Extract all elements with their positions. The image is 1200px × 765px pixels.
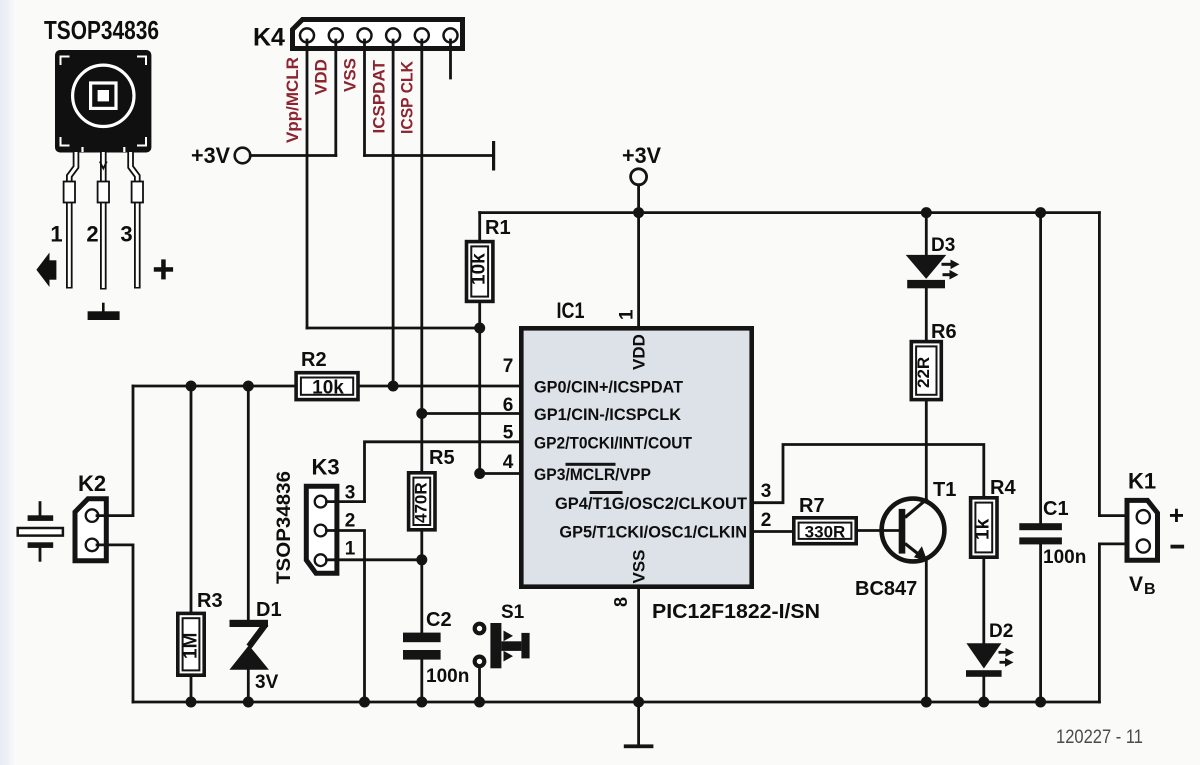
junction K3 pin2 / rail xyxy=(359,697,370,708)
wire +3V to VDD column xyxy=(250,154,335,157)
K2 pin 1 circle xyxy=(86,509,99,522)
svg-text:R2: R2 xyxy=(301,349,327,371)
wire top rail down to C1 xyxy=(1039,213,1042,523)
svg-text:120227 - 11: 120227 - 11 xyxy=(1056,727,1143,748)
svg-text:B: B xyxy=(1144,581,1156,598)
resistor R2 10k (horizontal) xyxy=(296,373,358,400)
svg-text:GP1/CIN-/ICSPCLK: GP1/CIN-/ICSPCLK xyxy=(534,405,682,424)
GP2 net wire xyxy=(365,442,520,502)
svg-text:1: 1 xyxy=(345,539,356,560)
wire R3 bottom to rail xyxy=(190,676,193,703)
junction R3 / rail xyxy=(186,697,197,708)
jog wire from K4 pin1 to R1 bottom xyxy=(307,327,480,330)
junction S1 / rail xyxy=(474,697,485,708)
wire D2 bottom to rail xyxy=(982,677,985,702)
svg-text:PIC12F1822-I/SN: PIC12F1822-I/SN xyxy=(652,601,820,623)
zener diode D1 xyxy=(229,620,269,670)
junction C1 / rail xyxy=(1035,697,1046,708)
junction T1 emitter / rail xyxy=(921,697,932,708)
wire K4 pin1 down xyxy=(306,40,309,328)
GP0 net wire xyxy=(133,385,519,388)
svg-text:VSS: VSS xyxy=(341,58,360,92)
svg-text:10k: 10k xyxy=(312,378,344,399)
svg-text:R6: R6 xyxy=(931,321,957,343)
wire C1 bottom to rail xyxy=(1039,544,1042,702)
svg-text:R1: R1 xyxy=(485,217,511,239)
svg-text:1: 1 xyxy=(50,222,62,247)
svg-text:IC1: IC1 xyxy=(557,298,585,323)
svg-text:5: 5 xyxy=(503,423,514,444)
wire T1 collector up to R6 xyxy=(925,402,928,499)
package lens circle xyxy=(73,65,134,126)
junction ICSPDAT / GP0 xyxy=(388,381,399,392)
connector K2 body xyxy=(75,499,106,561)
svg-text:6: 6 xyxy=(503,395,514,416)
svg-text:GP5/T1CKI/OSC1/CLKIN: GP5/T1CKI/OSC1/CLKIN xyxy=(559,523,747,542)
wire C2 bottom to rail xyxy=(420,660,423,702)
svg-text:D2: D2 xyxy=(989,621,1013,642)
svg-text:VDD: VDD xyxy=(630,334,649,370)
svg-text:T1: T1 xyxy=(933,479,956,501)
svg-text:VDD: VDD xyxy=(312,59,331,95)
junction R1 bottom / MCLR jog xyxy=(474,323,485,334)
battery cell symbol xyxy=(18,503,63,561)
svg-text:1k: 1k xyxy=(973,518,994,540)
junction ICSPCLK / GP1 xyxy=(416,408,427,419)
svg-text:2: 2 xyxy=(345,511,356,532)
wire K2 pin1 to left riser xyxy=(97,386,133,516)
package center square window xyxy=(91,83,116,108)
package corner highlight marks xyxy=(61,57,147,146)
GP1 net wire xyxy=(422,412,519,415)
ground rail (bottom) xyxy=(133,701,1099,704)
wire top rail to K1 + xyxy=(1099,213,1126,516)
resistor R7 330R (horizontal) xyxy=(794,518,856,544)
wire K4 pin2 down to +3V line xyxy=(334,40,337,156)
svg-text:8: 8 xyxy=(611,597,631,607)
svg-text:Vpp/MCLR: Vpp/MCLR xyxy=(283,57,302,143)
junction D1 / rail xyxy=(243,697,254,708)
wire K2 pin2 down to ground rail xyxy=(97,545,133,702)
svg-text:BC847: BC847 xyxy=(855,578,917,600)
svg-text:7: 7 xyxy=(503,356,514,377)
svg-text:ICSPDAT: ICSPDAT xyxy=(370,60,389,134)
svg-text:VSS: VSS xyxy=(630,549,649,583)
wire IC1 VSS pin down xyxy=(637,589,640,702)
svg-text:470R: 470R xyxy=(412,482,431,523)
LED D3 xyxy=(906,255,960,288)
TSOP pin2 ground stub and bar xyxy=(102,303,105,312)
svg-text:K2: K2 xyxy=(78,471,106,496)
junction R3 / GP0 xyxy=(186,381,197,392)
svg-text:100n: 100n xyxy=(426,666,469,687)
svg-text:GP0/CIN+/ICSPDAT: GP0/CIN+/ICSPDAT xyxy=(534,378,684,397)
LED D2 xyxy=(966,643,1014,677)
K1 minus sign xyxy=(1171,545,1185,549)
TSOP pin 2 leg xyxy=(98,152,109,290)
svg-text:R7: R7 xyxy=(799,495,825,517)
TSOP pin 3 leg xyxy=(131,152,143,289)
svg-text:1M: 1M xyxy=(181,633,202,659)
junction D2 / rail xyxy=(978,697,989,708)
K4 pin 5 circle xyxy=(415,28,429,42)
junction C1 / top rail xyxy=(1035,207,1046,218)
wire K3 pin1 to R5 column xyxy=(327,558,422,561)
capacitor C2 plates xyxy=(403,633,441,643)
bar terminator xyxy=(492,141,495,171)
connector K4 body xyxy=(293,20,463,49)
junction VSS / rail xyxy=(633,697,644,708)
junction C2 / rail xyxy=(416,697,427,708)
svg-text:K4: K4 xyxy=(253,24,285,52)
svg-text:2: 2 xyxy=(86,222,98,247)
package bottom notches xyxy=(83,147,125,152)
svg-text:+: + xyxy=(1169,500,1184,530)
wire K4 pin3 down xyxy=(363,40,366,156)
svg-text:C2: C2 xyxy=(426,609,452,631)
svg-text:ICSP CLK: ICSP CLK xyxy=(398,60,417,134)
wire top rail to D3 xyxy=(925,213,928,255)
resistor R1 10k (vertical) xyxy=(467,213,493,474)
connector K1 body xyxy=(1127,500,1158,560)
svg-text:100n: 100n xyxy=(1043,547,1086,568)
overline T1G xyxy=(590,491,623,494)
wire R5 bottom to C2 xyxy=(420,532,423,633)
TSOP plus sign xyxy=(154,267,173,272)
K4 pin 3 circle xyxy=(358,28,372,42)
svg-text:GP4/T1G/OSC2/CLKOUT: GP4/T1G/OSC2/CLKOUT xyxy=(555,494,748,513)
svg-text:D3: D3 xyxy=(931,235,955,256)
ground symbol under VSS xyxy=(637,702,640,744)
wire K3 pin3 to GP2 xyxy=(327,500,365,503)
op IC1 PIC12F1822 body xyxy=(521,328,751,586)
svg-text:3: 3 xyxy=(120,222,132,247)
wire R6 top to D3 xyxy=(925,287,928,342)
wire GP0 down to R3 xyxy=(190,386,193,612)
K2 pin 2 circle xyxy=(86,539,99,552)
wire R7 to T1 base xyxy=(858,529,899,532)
svg-text:22R: 22R xyxy=(914,357,933,388)
K3 pin 3 circle xyxy=(315,496,327,508)
svg-text:K3: K3 xyxy=(312,455,340,480)
svg-text:GP2/T0CKI/INT/COUT: GP2/T0CKI/INT/COUT xyxy=(534,433,693,452)
resistor R4 1k (vertical) xyxy=(971,498,997,557)
svg-text:C1: C1 xyxy=(1043,498,1069,520)
svg-text:2: 2 xyxy=(761,510,772,531)
TSOP data-out arrow symbol xyxy=(36,253,49,288)
junction +3V / top rail xyxy=(633,207,644,218)
svg-text:330R: 330R xyxy=(805,523,846,542)
GP3 net wire xyxy=(480,472,519,475)
svg-text:R3: R3 xyxy=(197,590,223,612)
wire GP0 down to D1 xyxy=(247,386,250,621)
junction D3 / top rail xyxy=(921,207,932,218)
connector K3 body xyxy=(306,486,337,573)
wire R4 bottom to D2 xyxy=(982,557,985,644)
svg-text:10k: 10k xyxy=(469,253,490,285)
svg-text:3V: 3V xyxy=(255,672,279,693)
wire D1 bottom to rail xyxy=(247,670,250,702)
wire VSS column to bar terminator xyxy=(365,154,493,157)
K4 pin 1 circle xyxy=(300,28,314,42)
junction R1 / GP3 xyxy=(474,468,485,479)
TSOP34836 IR receiver package body xyxy=(55,50,151,153)
svg-text:TSOP34836: TSOP34836 xyxy=(274,471,295,584)
svg-text:R5: R5 xyxy=(429,447,455,469)
svg-text:S1: S1 xyxy=(501,602,525,623)
resistor R6 22R (vertical) xyxy=(911,342,941,400)
wire K1 - to ground rail xyxy=(1099,544,1126,702)
svg-text:+3V: +3V xyxy=(622,143,661,168)
wire K4 pin6 stub xyxy=(449,40,452,78)
K4 pin 2 circle xyxy=(329,28,343,42)
svg-text:4: 4 xyxy=(503,452,514,473)
resistor R5 470R (vertical) xyxy=(409,473,435,530)
wire K3 pin2 down to ground rail xyxy=(327,531,365,703)
K3 pin 1 circle xyxy=(315,554,327,566)
svg-text:GP3/MCLR/VPP: GP3/MCLR/VPP xyxy=(534,465,651,484)
wire T1 emitter down to rail xyxy=(925,560,928,703)
junction K3 pin1 / R5 xyxy=(416,554,427,565)
wire GP4 to R4 top xyxy=(754,445,984,503)
wire K4 pin5 down to R5 xyxy=(420,40,423,471)
wire S1 bottom to rail xyxy=(478,667,481,702)
TSOP pin 1 leg xyxy=(64,152,76,289)
K1 pin - circle xyxy=(1137,539,1150,552)
svg-text:1: 1 xyxy=(617,309,638,320)
K3 pin 2 circle xyxy=(315,525,327,537)
overline MCLR xyxy=(566,463,616,466)
K4 pin 4 circle xyxy=(386,28,400,42)
junction D1 / GP0 xyxy=(243,381,254,392)
wire GP5 to R7 xyxy=(754,530,793,533)
svg-text:TSOP34836: TSOP34836 xyxy=(44,15,159,45)
top supply rail xyxy=(480,211,1100,214)
wire K4 pin4 down to GP0 xyxy=(392,40,395,386)
resistor R3 1M (vertical) xyxy=(178,613,204,675)
wire +3V centre down into IC VDD pin xyxy=(637,185,640,326)
svg-text:V: V xyxy=(1129,573,1143,596)
capacitor C1 plates xyxy=(1019,523,1062,530)
K1 pin + circle xyxy=(1137,510,1150,523)
svg-text:D1: D1 xyxy=(256,599,282,621)
svg-text:+3V: +3V xyxy=(191,143,230,168)
svg-text:R4: R4 xyxy=(990,477,1016,499)
pushbutton S1 xyxy=(475,623,530,668)
transistor T1 BC847 xyxy=(882,499,945,562)
K4 pin 6 circle xyxy=(444,28,458,42)
svg-text:K1: K1 xyxy=(1128,469,1156,494)
svg-text:3: 3 xyxy=(761,481,772,502)
